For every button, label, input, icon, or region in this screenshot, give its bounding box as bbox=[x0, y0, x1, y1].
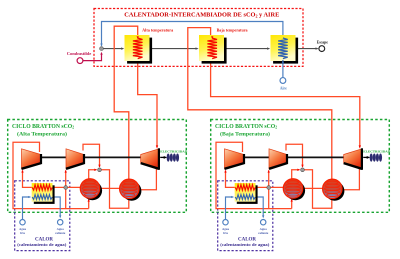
exchanger2 (sCO2 baja) coil bbox=[207, 38, 217, 59]
svg-text:(calentamiento de agua): (calentamiento de agua) bbox=[220, 243, 270, 247]
heater enclosure box (CALENTADOR-INTERCAMBIADOR) bbox=[94, 9, 303, 67]
wire: right junction to cooler2 bottom bbox=[303, 170, 332, 209]
left compressor1 bbox=[22, 149, 42, 169]
right recuperator junction node bbox=[267, 186, 271, 190]
left recuperator shadow bbox=[34, 185, 55, 204]
wire: flue gas exchanger3 to escape bbox=[296, 48, 318, 50]
wire: left cooler1 bottom leg bbox=[88, 200, 90, 209]
combustible terminal circle bbox=[77, 58, 83, 64]
wire: left agua fria into recuperator bbox=[23, 197, 30, 219]
right agua caliente terminal bbox=[261, 220, 266, 225]
right recuperator shadow bbox=[237, 185, 258, 204]
right recuperator body bbox=[235, 183, 256, 202]
svg-text:Escape: Escape bbox=[317, 40, 328, 44]
wire: flue gas exchanger1 to exchanger2 bbox=[150, 48, 198, 50]
exchanger3 (aire) body bbox=[271, 35, 296, 61]
wire: right recuperator to cooler1 bbox=[255, 186, 293, 188]
left generator coil bbox=[167, 153, 179, 161]
svg-text:Baja temperatura: Baja temperatura bbox=[217, 28, 248, 33]
wire: left recuperator to cooler1 bbox=[52, 186, 90, 188]
wire: right riser to compressor2 inlet bbox=[268, 171, 270, 209]
exchanger1 (sCO2 alta) shadow bbox=[127, 38, 152, 64]
svg-text:Combustible: Combustible bbox=[67, 51, 92, 56]
arrow combustible up bbox=[100, 52, 102, 55]
exchanger2 (sCO2 baja) inlet arrow bbox=[211, 36, 213, 39]
svg-text:caliente: caliente bbox=[258, 231, 269, 235]
svg-text:(calentamiento de agua): (calentamiento de agua) bbox=[17, 243, 67, 247]
right turbine bbox=[344, 148, 362, 170]
left recuperator junction node bbox=[64, 186, 68, 190]
wire: left junction to cooler2 bottom bbox=[100, 170, 129, 209]
wire: right recuperator to agua caliente bbox=[255, 197, 263, 217]
right agua fria terminal bbox=[223, 220, 228, 225]
arrow into right turbine bbox=[359, 145, 361, 148]
svg-text:CALOR: CALOR bbox=[238, 238, 256, 243]
wire: exchanger2 outlet to right turbine bbox=[211, 59, 360, 148]
arrow into left turbine bbox=[156, 145, 158, 148]
exchanger1 (sCO2 alta) coil bbox=[133, 38, 143, 59]
right compressor1 bbox=[225, 149, 245, 169]
wire: left cooler2 to turbine exhaust leg bbox=[129, 168, 156, 190]
wire: right cycle sCO2 riser to exchanger2 (hot inlet) bbox=[188, 28, 332, 180]
right CALOR enclosure bbox=[218, 181, 273, 251]
right recuperator water coil bbox=[235, 195, 255, 200]
wire: flue gas junction to exchanger1 bbox=[102, 48, 124, 50]
arrow sCO2 down into exchanger1 bbox=[137, 36, 139, 39]
svg-text:Aire: Aire bbox=[280, 87, 287, 91]
left agua caliente terminal bbox=[58, 220, 63, 225]
wire: left riser to compressor2 inlet bbox=[65, 171, 67, 209]
exchanger2 (sCO2 baja) shadow bbox=[202, 38, 227, 64]
wire: combustible feed bbox=[83, 53, 102, 61]
left cooler junction node bbox=[98, 168, 102, 172]
exchanger3 (aire) shadow bbox=[273, 38, 298, 64]
left CALOR enclosure bbox=[15, 181, 70, 251]
svg-text:Alta temperatura: Alta temperatura bbox=[142, 28, 173, 33]
wire: right agua fria into recuperator bbox=[226, 197, 233, 219]
wire: left compressor1 inlet from recuperator bbox=[23, 171, 33, 188]
svg-text:ELECTRICIDAD: ELECTRICIDAD bbox=[363, 150, 391, 154]
left recuperator hot coil bbox=[32, 185, 52, 190]
left cooler2 bbox=[120, 179, 142, 201]
left compressor2 bbox=[66, 149, 84, 169]
svg-text:ELECTRICIDAD: ELECTRICIDAD bbox=[160, 150, 188, 154]
right cooler junction node bbox=[301, 168, 305, 172]
svg-text:CALENTADOR-INTERCAMBIADOR DE s: CALENTADOR-INTERCAMBIADOR DE sCO2 y AIRE bbox=[124, 12, 279, 19]
wire: flue gas exchanger2 to exchanger3 bbox=[224, 48, 269, 50]
exchanger1 (sCO2 alta) inlet arrow bbox=[137, 36, 139, 39]
wire: blue preheated air line to burner junction bbox=[102, 22, 283, 46]
exchanger3 (aire) inlet arrow bbox=[282, 60, 284, 63]
wire: right cooler1 bottom leg bbox=[291, 200, 293, 209]
wire: left compressor1 outlet loop bbox=[13, 142, 89, 208]
wire: right cooler2 to turbine exhaust leg bbox=[332, 168, 359, 190]
escape terminal circle bbox=[319, 46, 325, 52]
right recuperator hot coil bbox=[235, 185, 255, 190]
wire: left compressor2 outlet loop to junction bbox=[83, 144, 100, 167]
wire: right compressor2 outlet loop to junction bbox=[286, 144, 303, 167]
wire: right compressor1 inlet from recuperator bbox=[226, 171, 236, 188]
svg-text:caliente: caliente bbox=[55, 231, 66, 235]
right compressor2 bbox=[269, 149, 287, 169]
aire terminal circle bbox=[280, 78, 286, 84]
svg-text:CALOR: CALOR bbox=[35, 238, 53, 243]
right generator shaft arrow bbox=[363, 156, 368, 158]
svg-text:CICLO BRAYTON sCO2: CICLO BRAYTON sCO2 bbox=[215, 124, 277, 130]
wire: left cycle sCO2 riser to exchanger1 (hot inlet) bbox=[114, 26, 138, 180]
left cycle enclosure (CICLO BRAYTON Alta) bbox=[8, 120, 187, 213]
right generator coil bbox=[370, 153, 382, 161]
svg-text:fría: fría bbox=[223, 231, 228, 235]
arrow air up into exchanger3 bbox=[282, 59, 284, 62]
svg-text:fría: fría bbox=[20, 231, 25, 235]
wire: left recuperator to agua caliente bbox=[52, 197, 60, 217]
wire: right cooler1 top to junction bbox=[292, 170, 300, 179]
left recuperator body bbox=[32, 183, 53, 202]
right cycle enclosure (CICLO BRAYTON Baja) bbox=[211, 120, 390, 213]
exchanger1 (sCO2 alta) body bbox=[125, 35, 150, 61]
arrow sCO2 down into exchanger2 bbox=[209, 36, 211, 39]
left generator shaft arrow bbox=[160, 156, 165, 158]
left cooler1 bbox=[80, 179, 102, 201]
wire: right compressor1 outlet loop bbox=[216, 142, 292, 208]
burner junction node bbox=[100, 47, 104, 51]
arrow air down into junction bbox=[100, 44, 102, 47]
exchanger2 (sCO2 baja) body bbox=[199, 35, 224, 61]
wire: left cooler1 to cooler2 bbox=[90, 187, 129, 189]
wire: right cooler1 to cooler2 bbox=[293, 187, 332, 189]
wire: exchanger1 outlet to left turbine bbox=[138, 59, 157, 148]
wire: air from Aire inlet into exchanger3 bbox=[282, 59, 284, 78]
right cooler2 bbox=[323, 179, 345, 201]
left agua fria terminal bbox=[20, 220, 25, 225]
exchanger3 (aire) coil bbox=[278, 38, 288, 59]
right cooler1 bbox=[283, 179, 305, 201]
svg-text:(Baja Temperatura): (Baja Temperatura) bbox=[220, 131, 270, 138]
wire: left cooler1 top to junction bbox=[89, 170, 97, 179]
right shaft bbox=[244, 156, 344, 158]
left turbine bbox=[141, 148, 159, 170]
svg-text:(Alta Temperatura): (Alta Temperatura) bbox=[17, 131, 67, 138]
left shaft bbox=[41, 156, 141, 158]
svg-text:CICLO BRAYTON sCO2: CICLO BRAYTON sCO2 bbox=[12, 124, 74, 130]
left recuperator water coil bbox=[32, 195, 52, 200]
